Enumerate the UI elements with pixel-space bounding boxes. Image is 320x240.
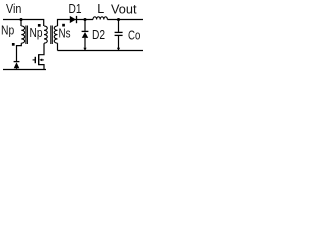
transformer core 1 — [26, 26, 28, 45]
svg-text:D1: D1 — [69, 2, 82, 16]
transformer core 2 — [51, 26, 53, 45]
wire: secondary top from winding C through D1 to inductor — [58, 20, 94, 27]
polarity dot winding C — [62, 24, 65, 27]
svg-text:Np: Np — [30, 25, 43, 40]
polarity dot winding A — [12, 43, 15, 46]
background — [0, 0, 143, 90]
junction flare D2 to rail — [83, 48, 86, 51]
transistor Q1 channel bar — [38, 54, 40, 65]
node junction dot at Vin / winding A — [19, 18, 22, 21]
polarity dot winding B — [38, 24, 41, 27]
wire: winding B bottom lead to MOSFET drain — [39, 43, 44, 55]
wire: MOSFET source lead to bottom rail — [39, 65, 44, 70]
wire: primary bottom rail — [3, 69, 46, 71]
capacitor Co plates — [115, 31, 123, 33]
wire: D2 branch vertical — [84, 20, 86, 32]
svg-text:L: L — [97, 2, 104, 16]
inductor L — [93, 17, 107, 20]
svg-text:Vin: Vin — [6, 2, 21, 16]
wire: reset diode to primary bottom rail — [16, 68, 18, 69]
transformer winding Ns (secondary) — [54, 26, 57, 43]
svg-text:Vout: Vout — [111, 2, 137, 16]
transformer winding Np (reset, left) — [21, 26, 24, 43]
wire: winding C bottom lead — [57, 43, 59, 50]
svg-text:Np: Np — [1, 23, 14, 38]
svg-text:Ns: Ns — [59, 25, 71, 40]
transistor Q1 (MOSFET) gate bar — [34, 57, 36, 63]
diode Dr (reset) — [14, 61, 20, 63]
wire: secondary bottom rail — [58, 50, 144, 52]
wire: primary top rail from Vin to winding B corner — [3, 20, 44, 27]
transformer winding Np (primary) — [44, 26, 47, 43]
diode D2 — [82, 30, 89, 32]
junction flare Co to rail — [117, 48, 120, 51]
svg-text:D2: D2 — [92, 28, 105, 42]
node junction dot at D2 branch — [83, 18, 86, 21]
wire: Co branch vertical — [118, 20, 120, 32]
diode D1 — [70, 16, 76, 23]
transistor Q1 body arrow — [42, 59, 44, 61]
node junction dot at Co branch — [117, 18, 120, 21]
transistor Q1 gate stub — [33, 59, 36, 61]
svg-text:Co: Co — [128, 29, 140, 43]
wire: top rail from inductor to Vout edge — [107, 19, 143, 21]
wire: winding A top lead — [20, 20, 22, 27]
wire: winding A bottom lead to reset diode — [17, 43, 22, 61]
